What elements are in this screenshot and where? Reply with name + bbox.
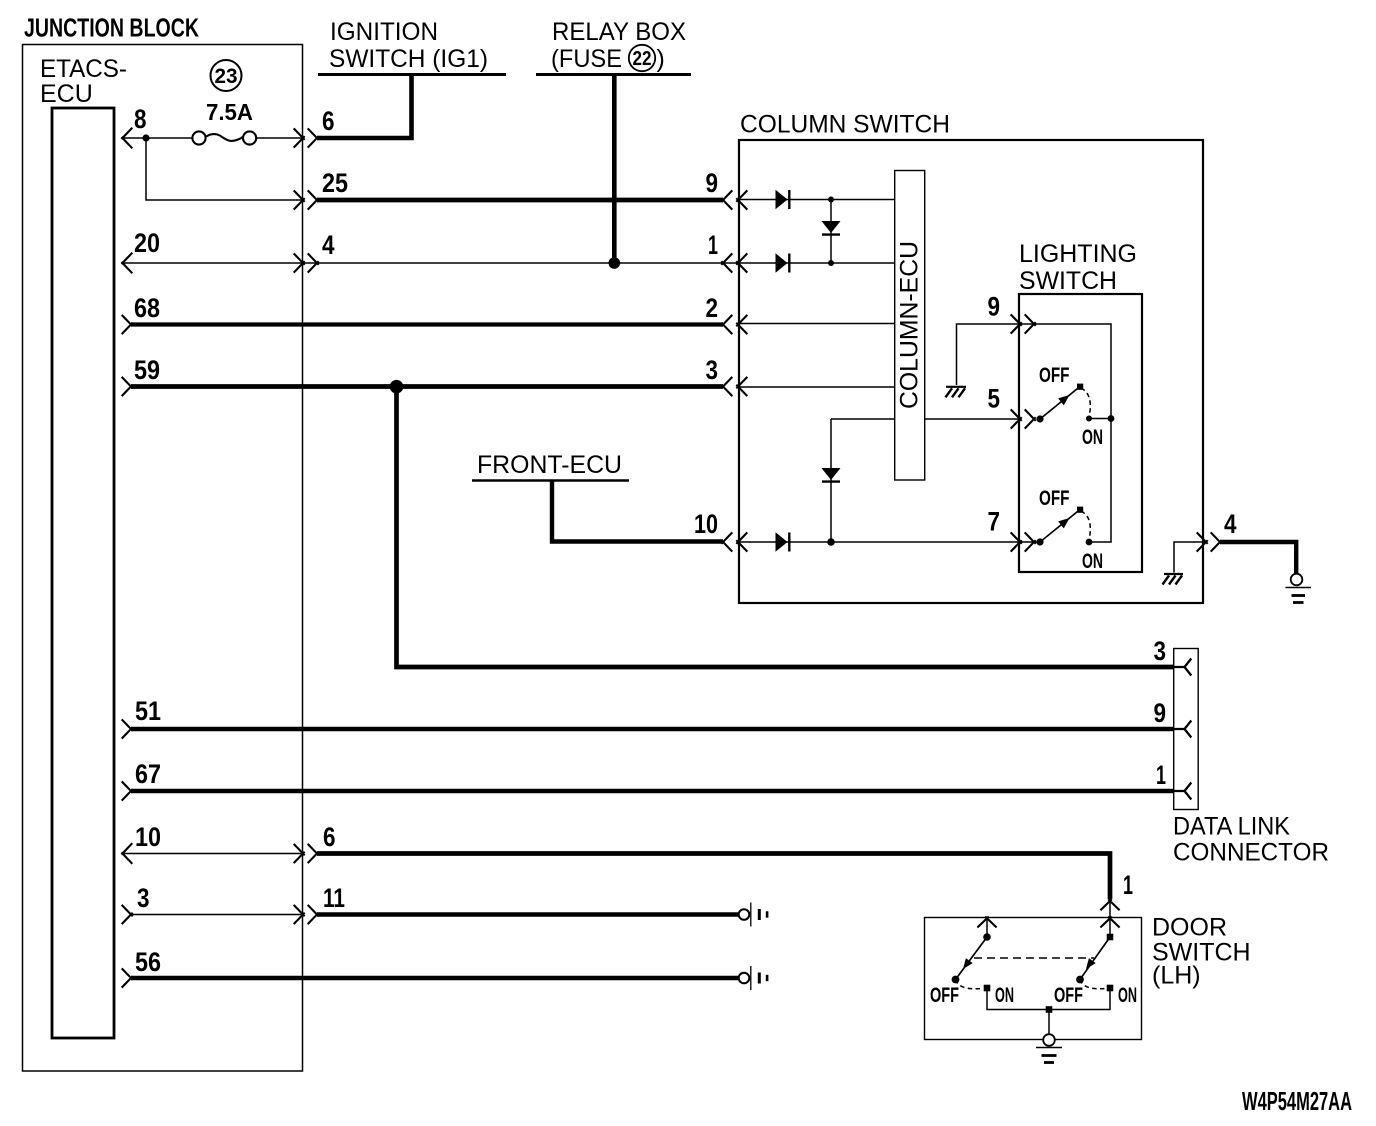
svg-text:68: 68 — [134, 293, 160, 323]
svg-text:10: 10 — [694, 509, 718, 539]
svg-text:6: 6 — [323, 822, 336, 852]
svg-text:ON: ON — [1118, 984, 1137, 1007]
svg-text:COLUMN-ECU: COLUMN-ECU — [896, 241, 924, 409]
svg-text:W4P54M27AA: W4P54M27AA — [1242, 1086, 1352, 1116]
svg-text:6: 6 — [322, 106, 335, 136]
svg-text:FRONT-ECU: FRONT-ECU — [477, 451, 622, 479]
svg-text:1: 1 — [708, 230, 718, 260]
svg-text:1: 1 — [1156, 760, 1166, 790]
svg-text:67: 67 — [135, 759, 161, 789]
svg-text:7.5A: 7.5A — [206, 99, 253, 125]
svg-text:ON: ON — [1082, 426, 1103, 449]
svg-text:(LH): (LH) — [1152, 962, 1201, 990]
svg-text:CONNECTOR: CONNECTOR — [1173, 839, 1329, 867]
svg-text:9: 9 — [988, 292, 1001, 322]
svg-text:20: 20 — [134, 228, 160, 258]
svg-text:DATA LINK: DATA LINK — [1173, 813, 1290, 841]
svg-text:ON: ON — [1082, 550, 1103, 573]
svg-text:SWITCH: SWITCH — [1019, 267, 1117, 295]
svg-text:3: 3 — [137, 883, 150, 913]
svg-text:3: 3 — [1154, 636, 1167, 666]
svg-text:OFF: OFF — [1039, 487, 1070, 510]
svg-text:OFF: OFF — [1054, 984, 1083, 1007]
svg-text:ON: ON — [995, 984, 1014, 1007]
svg-text:SWITCH (IG1): SWITCH (IG1) — [329, 45, 488, 73]
svg-text:7: 7 — [988, 507, 1001, 537]
svg-text:JUNCTION BLOCK: JUNCTION BLOCK — [24, 13, 199, 43]
svg-text:11: 11 — [323, 883, 345, 913]
svg-text:LIGHTING: LIGHTING — [1019, 240, 1137, 268]
svg-text:9: 9 — [1154, 698, 1167, 728]
svg-text:10: 10 — [135, 822, 161, 852]
svg-text:3: 3 — [706, 355, 719, 385]
svg-text:OFF: OFF — [1039, 364, 1070, 387]
svg-text:25: 25 — [322, 168, 348, 198]
svg-text:56: 56 — [135, 947, 161, 977]
svg-text:ECU: ECU — [40, 80, 93, 108]
svg-text:4: 4 — [322, 230, 335, 260]
svg-text:9: 9 — [706, 168, 719, 198]
svg-text:2: 2 — [706, 293, 719, 323]
svg-text:COLUMN SWITCH: COLUMN SWITCH — [740, 111, 950, 139]
svg-text:ETACS-: ETACS- — [40, 55, 127, 83]
svg-text:5: 5 — [988, 384, 1001, 414]
svg-text:4: 4 — [1224, 509, 1237, 539]
svg-text:OFF: OFF — [930, 984, 959, 1007]
svg-text:DOOR: DOOR — [1152, 914, 1227, 942]
svg-text:23: 23 — [215, 65, 238, 88]
svg-text:51: 51 — [135, 696, 161, 726]
svg-text:RELAY BOX: RELAY BOX — [552, 18, 686, 46]
svg-text:(FUSE: (FUSE — [551, 45, 622, 73]
svg-text:1: 1 — [1123, 870, 1133, 900]
svg-text:): ) — [657, 45, 665, 73]
svg-text:8: 8 — [134, 104, 147, 134]
svg-text:59: 59 — [134, 355, 160, 385]
svg-text:22: 22 — [633, 48, 652, 70]
svg-text:IGNITION: IGNITION — [330, 18, 438, 46]
